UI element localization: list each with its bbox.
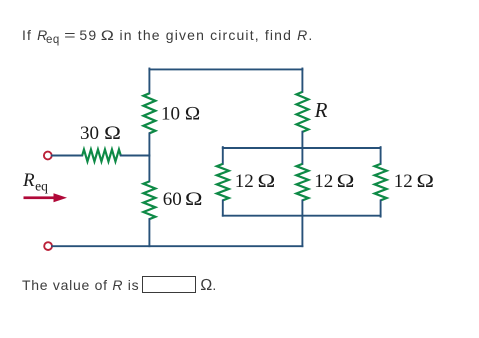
wire: resistor R to box top (301, 132, 303, 148)
wire: top rail (149, 68, 302, 70)
wire: left vertical upper stub (148, 69, 150, 94)
svg-text:60: 60 (163, 189, 182, 210)
svg-text:Req: Req (22, 170, 48, 194)
resistor 12ohm #1 zigzag (217, 164, 229, 200)
wire: box right edge bottom stub (380, 200, 382, 216)
resistor 30ohm zigzag (82, 150, 121, 162)
wire: box left edge top stub (222, 147, 224, 164)
svg-text:R: R (314, 98, 328, 122)
wire: box left edge bottom stub (222, 200, 224, 215)
wire: resistor 30ohm to node A (121, 155, 150, 157)
wire: box middle top stub (301, 148, 303, 164)
svg-text:10: 10 (161, 103, 180, 124)
wire: node A vertical (10ohm to 60ohm) (148, 133, 150, 181)
resistor R zigzag (296, 92, 308, 132)
resistor 12ohm #3 zigzag (375, 164, 387, 200)
svg-text:Ω: Ω (257, 170, 275, 191)
terminal node bottom-left (44, 242, 52, 250)
wire: 60ohm to bottom rail (148, 219, 150, 246)
resistor 10ohm zigzag (143, 93, 155, 133)
svg-text:Ω: Ω (185, 103, 201, 124)
svg-text:30: 30 (80, 123, 99, 144)
wire: parallel box bottom rail (223, 215, 381, 217)
wire: bottom rail (52, 245, 302, 247)
svg-text:12: 12 (235, 171, 254, 192)
wire: top terminal to resistor 30ohm (52, 155, 82, 157)
svg-text:Ω: Ω (185, 188, 203, 209)
svg-text:Ω: Ω (104, 122, 121, 144)
svg-text:Ω: Ω (336, 170, 354, 191)
wire: parallel box top rail (223, 147, 381, 149)
svg-text:Ω: Ω (416, 170, 434, 191)
wire: box middle bottom to bottom rail (301, 200, 303, 246)
resistor 60ohm zigzag (143, 181, 155, 219)
svg-text:12: 12 (314, 171, 333, 192)
wire: box right edge top stub (380, 147, 382, 164)
question text (22, 27, 313, 46)
resistor 12ohm #2 zigzag (296, 164, 308, 200)
current arrow Req (24, 193, 68, 202)
svg-text:12: 12 (394, 171, 413, 192)
answer text with input box (22, 276, 217, 295)
wire: right vertical upper stub (301, 69, 303, 92)
terminal node top-left (44, 152, 52, 160)
